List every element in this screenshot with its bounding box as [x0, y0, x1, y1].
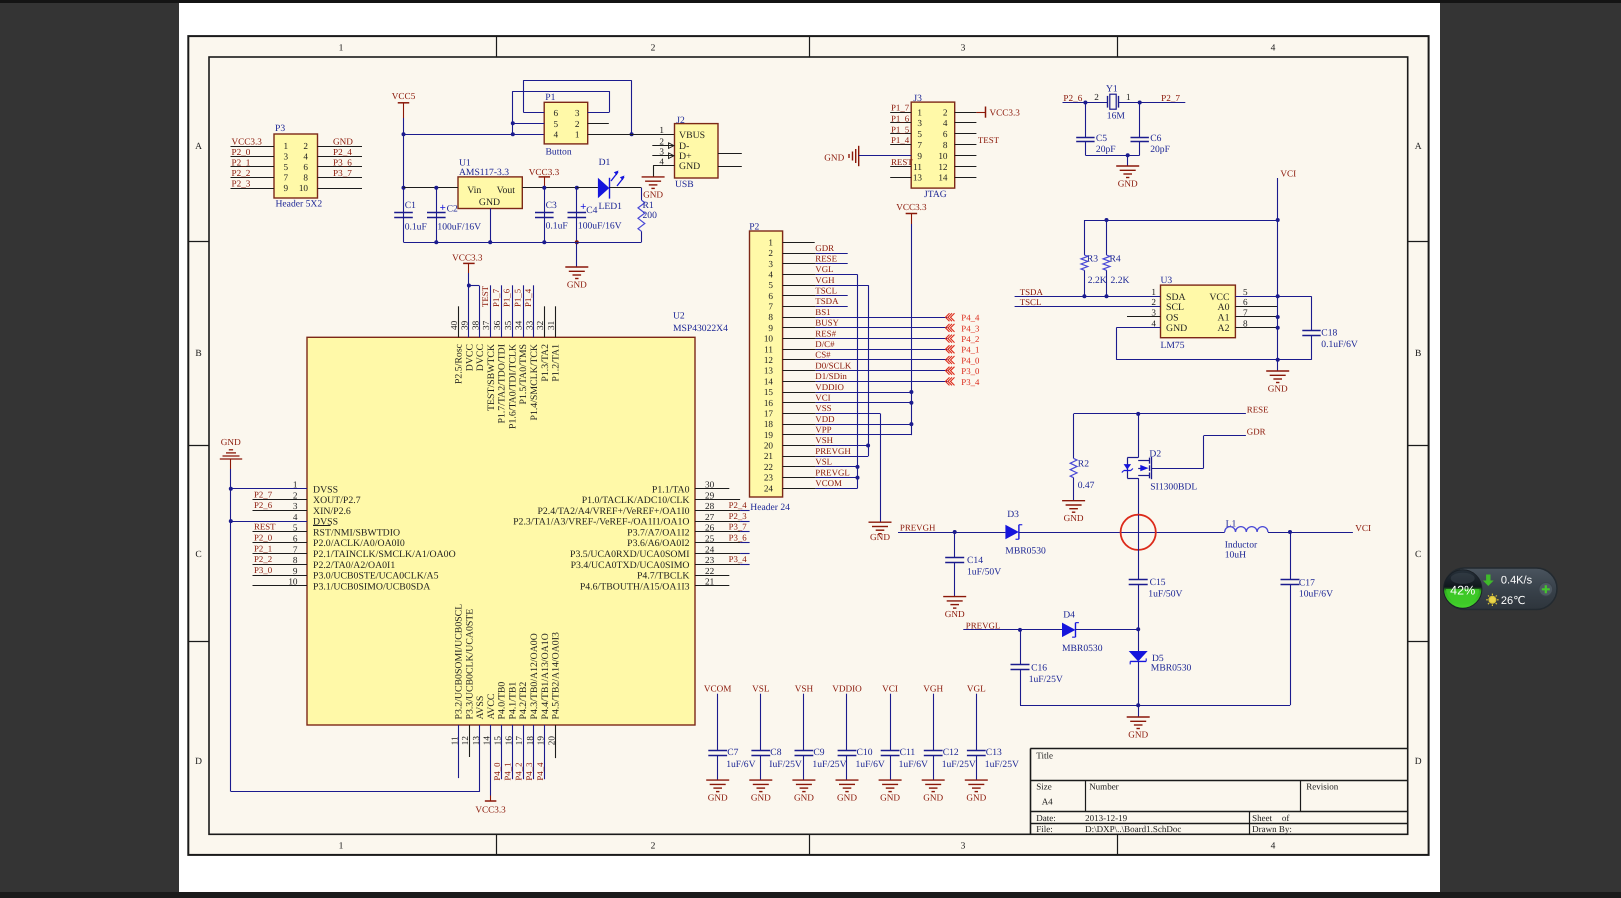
svg-text:TSCL: TSCL: [1020, 297, 1042, 307]
U2 pin 36: [501, 285, 503, 337]
svg-text:P4.7/TBCLK: P4.7/TBCLK: [637, 571, 690, 582]
sheet border inner frame: [209, 57, 1408, 834]
nodes on VCC3.3 vertical: [909, 390, 913, 394]
capacitor C17: [1290, 532, 1292, 580]
svg-text:18: 18: [764, 419, 774, 429]
U2 pin 28: [695, 510, 740, 512]
capacitor C12: [933, 694, 935, 751]
svg-text:XIN/P2.6: XIN/P2.6: [313, 506, 351, 517]
svg-text:P3.5/UCA0RXD/UCA0SOMI: P3.5/UCA0RXD/UCA0SOMI: [570, 549, 690, 560]
P3 pin 7 wire: [231, 177, 275, 179]
svg-text:U2: U2: [673, 311, 685, 322]
J2 pin4 to ground: [653, 165, 674, 167]
wire VGL vertical: [857, 274, 859, 488]
svg-text:R4: R4: [1110, 253, 1121, 264]
svg-text:P2_4: P2_4: [333, 147, 352, 157]
svg-text:16: 16: [764, 398, 774, 408]
svg-text:20pF: 20pF: [1150, 144, 1170, 155]
svg-text:25: 25: [705, 534, 715, 544]
J3 left stub: [890, 122, 911, 124]
svg-text:1: 1: [284, 141, 289, 151]
U2 pin 18: [533, 725, 535, 779]
resistor R1: [609, 187, 641, 189]
svg-text:DVCC: DVCC: [464, 344, 475, 371]
U2 pin 9: [253, 575, 308, 577]
svg-text:RESE: RESE: [1247, 405, 1269, 415]
svg-text:28: 28: [705, 501, 715, 511]
svg-text:VCI: VCI: [1355, 523, 1371, 533]
svg-text:D1: D1: [599, 157, 611, 168]
J2 right stubs: [718, 153, 742, 155]
svg-text:P2: P2: [749, 222, 759, 233]
svg-text:C5: C5: [1096, 133, 1107, 144]
svg-text:D: D: [1415, 757, 1422, 767]
capacitor C15: [1129, 579, 1148, 581]
svg-text:VCI: VCI: [1280, 169, 1296, 179]
svg-text:PREVGH: PREVGH: [815, 446, 851, 456]
svg-text:26℃: 26℃: [1501, 595, 1526, 607]
svg-text:VCOM: VCOM: [704, 684, 732, 694]
U2 pin 25: [695, 542, 740, 544]
svg-text:XOUT/P2.7: XOUT/P2.7: [313, 495, 361, 506]
svg-text:7: 7: [768, 302, 773, 312]
svg-text:DVCC: DVCC: [475, 344, 486, 371]
svg-text:P2_0: P2_0: [254, 533, 273, 543]
svg-text:Sheet: Sheet: [1252, 813, 1272, 823]
P3 pin 5 wire: [231, 166, 275, 168]
U2 pin 27: [695, 521, 740, 523]
node C4/GND junction: [575, 240, 579, 244]
svg-text:5: 5: [768, 280, 773, 290]
svg-text:D:\DXP\..\Board1.SchDoc: D:\DXP\..\Board1.SchDoc: [1085, 824, 1181, 834]
connector P2 (Header 24): [750, 231, 783, 497]
svg-text:3: 3: [768, 259, 773, 269]
svg-text:VCC3.3: VCC3.3: [452, 252, 483, 262]
svg-text:1uF/25V: 1uF/25V: [812, 759, 846, 770]
svg-text:7: 7: [917, 140, 922, 150]
wire crystal gnd rail: [1085, 155, 1139, 157]
svg-text:Header 5X2: Header 5X2: [276, 199, 323, 210]
regulator U1 AMS117-3.3: [458, 177, 522, 209]
svg-text:U3: U3: [1161, 275, 1173, 286]
svg-text:13: 13: [764, 366, 774, 376]
svg-text:P2.4/TA2/A4/VREF+/VeREF+/OA1I0: P2.4/TA2/A4/VREF+/VeREF+/OA1I0: [537, 506, 689, 517]
svg-text:P1.6/TA0/TDI/TCLK: P1.6/TA0/TDI/TCLK: [507, 344, 518, 429]
svg-text:10: 10: [288, 577, 298, 587]
svg-text:9: 9: [284, 183, 289, 193]
svg-text:4: 4: [293, 512, 298, 522]
svg-text:P1_6: P1_6: [891, 113, 910, 123]
wire VCC5 vertical: [403, 118, 405, 242]
svg-text:TEST: TEST: [978, 135, 1000, 145]
svg-text:VSS: VSS: [815, 403, 831, 413]
svg-text:TSDA: TSDA: [1020, 287, 1044, 297]
svg-text:P1: P1: [545, 92, 555, 103]
svg-text:12: 12: [764, 355, 774, 365]
svg-text:2013-12-19: 2013-12-19: [1085, 813, 1127, 823]
capacitor C9: [803, 694, 805, 751]
svg-text:VSL: VSL: [815, 457, 832, 467]
svg-text:C13: C13: [986, 747, 1002, 758]
wire PREVGH: [898, 532, 1005, 534]
U2 pin 21: [695, 585, 729, 587]
svg-text:1: 1: [575, 130, 580, 140]
svg-text:GND: GND: [708, 793, 728, 803]
svg-text:C12: C12: [943, 747, 959, 758]
svg-text:6: 6: [943, 129, 948, 139]
capacitor C4 (polarized): [576, 188, 578, 242]
P3 pin 4 wire: [318, 156, 363, 158]
svg-text:SI1300BDL: SI1300BDL: [1150, 482, 1197, 493]
P3 pin 10 wire: [318, 188, 363, 190]
svg-text:P4.0/TB0: P4.0/TB0: [497, 682, 508, 720]
svg-text:7: 7: [284, 173, 289, 183]
P3 pin 6 wire: [318, 166, 363, 168]
svg-text:File:: File:: [1036, 824, 1053, 834]
svg-text:33: 33: [524, 320, 534, 330]
capacitor C5: [1085, 103, 1087, 138]
svg-text:30: 30: [705, 480, 715, 490]
ground below C12: [922, 780, 945, 792]
wire P1 pin2 stub: [588, 123, 609, 125]
svg-text:RESE: RESE: [815, 253, 837, 263]
U2 pin 23: [695, 564, 740, 566]
U2 pin 4: [231, 521, 307, 523]
svg-text:P4_4: P4_4: [961, 313, 980, 323]
svg-text:GDR: GDR: [1247, 427, 1266, 437]
svg-text:D/C#: D/C#: [815, 339, 835, 349]
svg-text:2: 2: [293, 490, 298, 500]
svg-text:GND: GND: [923, 793, 943, 803]
svg-text:D4: D4: [1063, 610, 1075, 621]
sheet border outer frame: [188, 36, 1428, 855]
svg-text:VSH: VSH: [795, 684, 814, 694]
U2 pin 5: [253, 531, 308, 533]
svg-text:0.1uF: 0.1uF: [546, 221, 568, 232]
svg-text:P4_3: P4_3: [961, 323, 980, 333]
svg-text:P3: P3: [275, 123, 285, 134]
svg-text:8: 8: [293, 555, 298, 565]
U2 pin 13: [479, 725, 481, 792]
svg-text:C6: C6: [1150, 133, 1161, 144]
svg-text:42%: 42%: [1450, 584, 1475, 598]
svg-text:B: B: [1415, 349, 1421, 359]
ground below C4: [576, 242, 578, 267]
svg-text:2: 2: [768, 248, 773, 258]
svg-text:GND: GND: [1118, 179, 1138, 189]
ground below U3: [1277, 360, 1279, 371]
svg-text:P1.1/TA0: P1.1/TA0: [652, 484, 690, 495]
wire AVSS elbow: [231, 791, 480, 793]
capacitor C6: [1139, 103, 1141, 138]
wire D3 to circle: [1019, 532, 1225, 534]
diode D5 MBR0530: [1138, 629, 1140, 651]
svg-text:4: 4: [303, 152, 308, 162]
zone separators: [496, 36, 498, 57]
svg-text:P4_3: P4_3: [524, 762, 534, 781]
svg-text:GND: GND: [1064, 513, 1084, 523]
svg-text:4: 4: [1271, 842, 1276, 852]
U2 pin 12: [469, 725, 471, 757]
svg-text:16: 16: [503, 736, 513, 746]
svg-text:3: 3: [575, 108, 580, 118]
svg-text:VGH: VGH: [815, 275, 835, 285]
svg-text:D: D: [195, 757, 202, 767]
svg-text:Revision: Revision: [1306, 782, 1339, 792]
svg-text:A0: A0: [1218, 302, 1230, 313]
svg-text:P2_3: P2_3: [232, 179, 251, 189]
U2 pin 19: [544, 725, 546, 779]
svg-text:LM75: LM75: [1161, 340, 1185, 351]
svg-text:10: 10: [938, 151, 948, 161]
svg-text:C10: C10: [857, 747, 873, 758]
svg-text:GND: GND: [966, 793, 986, 803]
svg-text:9: 9: [917, 151, 922, 161]
svg-text:GND: GND: [880, 793, 900, 803]
svg-text:P3_7: P3_7: [729, 522, 748, 532]
svg-text:21: 21: [764, 451, 774, 461]
wire U1 Vin: [404, 187, 459, 189]
svg-text:1uF/25V: 1uF/25V: [1029, 674, 1063, 685]
svg-text:4: 4: [768, 269, 773, 279]
U2 pin 7: [253, 553, 308, 555]
svg-text:6: 6: [554, 108, 559, 118]
U2 pin 17: [523, 725, 525, 779]
wire GDR to D2 gate: [1204, 435, 1246, 437]
U2 pin 8: [253, 564, 308, 566]
J3 right stub: [955, 177, 977, 179]
svg-text:11: 11: [449, 736, 459, 745]
svg-text:8: 8: [768, 312, 773, 322]
svg-text:P1_7: P1_7: [891, 103, 910, 113]
svg-text:VDDIO: VDDIO: [832, 684, 862, 694]
U2 pin 31: [555, 306, 557, 337]
svg-text:P2_6: P2_6: [254, 500, 273, 510]
svg-text:10uF/6V: 10uF/6V: [1299, 589, 1333, 600]
svg-text:2.2K: 2.2K: [1111, 275, 1130, 286]
svg-text:+: +: [440, 202, 446, 214]
J3 right stub: [955, 133, 977, 135]
svg-text:6: 6: [768, 291, 773, 301]
svg-text:1: 1: [339, 842, 344, 852]
svg-text:GND: GND: [679, 161, 700, 172]
svg-text:P4.5/TB2/A14/OA0I3: P4.5/TB2/A14/OA0I3: [551, 632, 562, 719]
svg-text:20pF: 20pF: [1096, 144, 1116, 155]
ground below C14: [943, 597, 966, 609]
svg-text:P4.2/TB2: P4.2/TB2: [518, 682, 529, 720]
svg-text:23: 23: [764, 473, 774, 483]
U3 pin4 gnd loop: [1116, 327, 1160, 329]
J3 left stub: [890, 112, 911, 114]
wire L1 to VCI: [1268, 532, 1353, 534]
svg-text:2: 2: [651, 44, 656, 54]
wire GND vertical left of U2: [230, 459, 232, 469]
svg-text:GND: GND: [479, 197, 500, 208]
svg-text:24: 24: [764, 483, 774, 493]
svg-text:GND: GND: [1268, 384, 1288, 394]
svg-text:4: 4: [659, 156, 664, 166]
U2 pin 3: [253, 510, 308, 512]
U2 pin 37: [490, 285, 492, 337]
svg-text:Number: Number: [1089, 782, 1119, 792]
svg-text:MBR0530: MBR0530: [1151, 663, 1192, 674]
svg-text:P2_1: P2_1: [232, 158, 251, 168]
svg-text:1: 1: [293, 480, 298, 490]
wire VCI rail: [1084, 220, 1277, 222]
svg-text:B: B: [195, 349, 201, 359]
svg-text:5: 5: [917, 129, 922, 139]
svg-text:4: 4: [943, 118, 948, 128]
U2 pin 40: [458, 306, 460, 337]
svg-text:1: 1: [768, 237, 773, 247]
svg-text:PREVGL: PREVGL: [815, 467, 850, 477]
svg-text:Button: Button: [546, 146, 572, 157]
ground below C10: [836, 780, 859, 792]
svg-text:P2_7: P2_7: [254, 489, 273, 499]
wire VCC3.3 vertical to P2: [911, 224, 913, 435]
svg-text:P3_0: P3_0: [254, 565, 273, 575]
wire P1 pin1 to J2: [588, 134, 675, 136]
svg-text:6: 6: [293, 534, 298, 544]
svg-text:GND: GND: [1166, 323, 1187, 334]
svg-text:VCC3.3: VCC3.3: [990, 108, 1021, 118]
svg-text:31: 31: [546, 320, 556, 330]
VCI vertical through U3: [1277, 220, 1279, 360]
svg-text:MBR0530: MBR0530: [1062, 643, 1103, 654]
svg-text:GND: GND: [333, 137, 353, 147]
connector P1 (Button): [544, 102, 588, 144]
svg-text:18: 18: [525, 736, 535, 746]
svg-text:2: 2: [575, 119, 580, 129]
svg-text:Drawn By:: Drawn By:: [1252, 824, 1292, 834]
title block: [1030, 748, 1407, 750]
svg-text:GND: GND: [643, 189, 663, 199]
svg-text:BS1: BS1: [815, 307, 830, 317]
U2 pin 30: [695, 488, 729, 490]
svg-text:P3.2/UCB0SOMI/UCB0SCL: P3.2/UCB0SOMI/UCB0SCL: [454, 604, 465, 720]
svg-text:TSDA: TSDA: [815, 296, 839, 306]
svg-text:15: 15: [492, 736, 502, 746]
svg-text:26: 26: [705, 523, 715, 533]
svg-text:VSL: VSL: [752, 684, 770, 694]
J3 right stub: [955, 155, 977, 157]
svg-text:P1_6: P1_6: [502, 288, 512, 307]
svg-text:10: 10: [299, 183, 309, 193]
svg-text:11: 11: [764, 344, 773, 354]
wire RESE: [1074, 413, 1246, 415]
bottom black bar: [0, 892, 1621, 898]
svg-text:A: A: [1415, 142, 1422, 152]
U3 right wires: [1235, 296, 1311, 298]
svg-text:R2: R2: [1078, 459, 1089, 470]
svg-text:VCI: VCI: [882, 684, 898, 694]
svg-text:P1.4/SMCLK/TCK: P1.4/SMCLK/TCK: [529, 344, 540, 421]
top black bar: [0, 0, 1621, 3]
svg-text:GND: GND: [824, 152, 844, 162]
svg-text:9: 9: [293, 566, 298, 576]
svg-text:37: 37: [481, 320, 491, 330]
svg-text:8: 8: [943, 140, 948, 150]
svg-text:D0/SCLK: D0/SCLK: [815, 360, 852, 370]
svg-text:11: 11: [913, 162, 922, 172]
svg-text:C18: C18: [1321, 327, 1337, 338]
svg-text:14: 14: [938, 173, 948, 183]
svg-text:VCC3.3: VCC3.3: [529, 167, 560, 177]
svg-text:VCC5: VCC5: [392, 91, 416, 101]
U2 pin 26: [695, 531, 740, 533]
svg-text:P1.3/TA2: P1.3/TA2: [540, 344, 551, 382]
svg-text:4: 4: [1151, 318, 1156, 328]
svg-text:1uF/6V: 1uF/6V: [899, 759, 928, 770]
svg-text:1uF/50V: 1uF/50V: [967, 566, 1001, 577]
svg-text:VPP: VPP: [815, 425, 831, 435]
svg-text:19: 19: [764, 430, 774, 440]
svg-text:TEST: TEST: [480, 285, 490, 307]
capacitor C13: [976, 694, 978, 751]
svg-text:P4.1/TB1: P4.1/TB1: [507, 682, 518, 720]
power VCC3.3 at J3 pin2: [976, 112, 985, 114]
wire D2 source down through circle: [1138, 515, 1140, 580]
svg-text:0.1uF: 0.1uF: [405, 221, 427, 232]
svg-text:P3_4: P3_4: [961, 377, 980, 387]
svg-text:A: A: [195, 142, 202, 152]
svg-text:5: 5: [284, 162, 289, 172]
svg-text:BUSY: BUSY: [815, 318, 839, 328]
svg-text:R3: R3: [1087, 253, 1098, 264]
svg-text:3: 3: [961, 842, 966, 852]
svg-text:P1_7: P1_7: [491, 288, 501, 307]
svg-text:P2_2: P2_2: [232, 168, 251, 178]
svg-text:3: 3: [917, 118, 922, 128]
svg-text:2.2K: 2.2K: [1088, 275, 1107, 286]
svg-text:A4: A4: [1042, 797, 1053, 807]
svg-text:RST/NMI/SBWTDIO: RST/NMI/SBWTDIO: [313, 527, 400, 538]
wire U1 GND stem: [490, 209, 492, 243]
connector J3 (JTAG): [911, 102, 955, 188]
svg-text:C: C: [1415, 550, 1421, 560]
RST overline: [313, 525, 331, 527]
svg-text:4: 4: [1271, 44, 1276, 54]
svg-text:GND: GND: [1128, 730, 1148, 740]
wire VSS to ground: [880, 413, 882, 522]
resistor R3: [1084, 220, 1086, 255]
svg-text:1: 1: [659, 125, 664, 135]
wire bottom rail C1..R1: [404, 242, 642, 244]
J3 left stub: [890, 166, 911, 168]
svg-text:Header 24: Header 24: [750, 502, 790, 513]
svg-text:P1.5/TA0/TMS: P1.5/TA0/TMS: [518, 344, 529, 404]
U2 pin 32: [544, 306, 546, 337]
J3 right stub: [955, 166, 977, 168]
svg-text:P3_0: P3_0: [961, 366, 980, 376]
wire J3 pin9 to ground: [859, 155, 912, 157]
svg-text:10uH: 10uH: [1225, 550, 1246, 561]
sensor U3 LM75: [1161, 285, 1236, 338]
svg-text:P2.2/TA0/A2/OA0I1: P2.2/TA0/A2/OA0I1: [313, 560, 395, 571]
svg-text:GND: GND: [837, 793, 857, 803]
U2 pin 35: [512, 285, 514, 337]
svg-text:C1: C1: [405, 200, 416, 211]
svg-text:4: 4: [554, 130, 559, 140]
svg-text:P1.0/TACLK/ADC10/CLK: P1.0/TACLK/ADC10/CLK: [582, 495, 690, 506]
svg-text:P4_2: P4_2: [513, 763, 523, 781]
svg-text:23: 23: [705, 555, 715, 565]
svg-text:32: 32: [535, 320, 545, 330]
svg-text:P4.6/TBOUTH/A15/OA1I3: P4.6/TBOUTH/A15/OA1I3: [580, 581, 690, 592]
svg-text:5: 5: [293, 523, 298, 533]
P3 pin 8 wire: [318, 177, 363, 179]
svg-text:20: 20: [764, 441, 774, 451]
